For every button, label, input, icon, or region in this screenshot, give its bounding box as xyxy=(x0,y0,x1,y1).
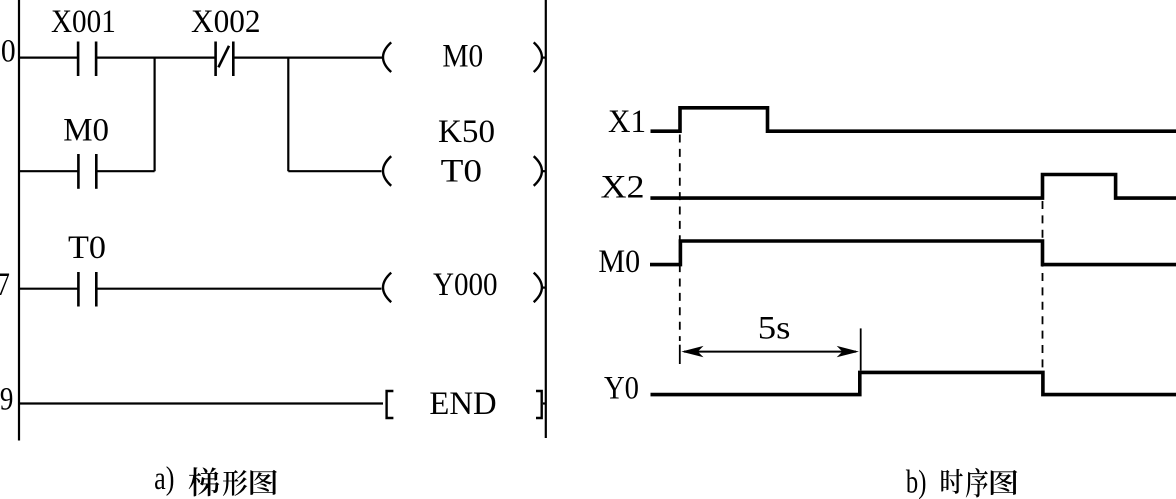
svg-text:T0: T0 xyxy=(441,154,482,190)
svg-text:M0: M0 xyxy=(63,112,109,148)
wire rung2 to node A xyxy=(96,170,154,172)
contact X002 slash xyxy=(218,46,229,68)
coil M0 right paren xyxy=(534,42,542,72)
svg-text:X002: X002 xyxy=(191,4,261,40)
svg-text:Y000: Y000 xyxy=(433,267,498,303)
svg-text:END: END xyxy=(429,386,496,422)
wire rung2 left xyxy=(19,170,78,172)
coil T0 right paren xyxy=(534,156,542,186)
caption glyph ti (ladder) xyxy=(189,467,220,496)
svg-text:5s: 5s xyxy=(758,311,791,347)
END right bracket xyxy=(536,391,542,418)
caption glyph tu (a) xyxy=(250,470,277,495)
caption glyph tu (b) xyxy=(991,470,1018,495)
svg-text:0: 0 xyxy=(1,34,16,70)
caption glyph xu xyxy=(966,468,988,498)
wire END to right rail xyxy=(543,402,546,404)
node A junction vertical wire xyxy=(154,58,156,172)
contact M0 bars xyxy=(77,154,80,189)
dimension arrow head left xyxy=(681,346,703,357)
contact X002 (NC) bars xyxy=(214,42,217,77)
svg-text:M0: M0 xyxy=(442,39,483,75)
dashed guide line t1 xyxy=(679,135,681,342)
waveform X1 xyxy=(651,108,1176,131)
wire T0 coil branch xyxy=(288,170,381,172)
dimension left tick xyxy=(679,345,681,364)
wire rung1 right xyxy=(233,56,382,58)
coil M0 left paren xyxy=(383,42,391,72)
caption glyph shi (timing) xyxy=(941,469,963,494)
left power rail xyxy=(18,0,20,441)
svg-text:X2: X2 xyxy=(601,170,645,206)
contact T0 bars xyxy=(77,272,80,307)
contact X001 bars xyxy=(77,42,80,77)
svg-text:a): a) xyxy=(154,461,174,497)
wire rung1 middle xyxy=(96,56,215,58)
waveform M0 xyxy=(650,241,1176,265)
caption glyph xing xyxy=(223,470,247,496)
svg-text:M0: M0 xyxy=(598,244,640,280)
coil T0 left paren xyxy=(383,156,391,186)
coil Y000 right paren xyxy=(534,273,542,303)
dimension right tick xyxy=(860,328,862,370)
dimension arrow head right xyxy=(837,346,859,357)
waveform X2 xyxy=(650,175,1176,199)
node B junction vertical wire xyxy=(287,58,289,172)
svg-text:Y0: Y0 xyxy=(604,370,639,406)
wire rung3 left xyxy=(19,288,78,290)
waveform Y0 xyxy=(651,372,1176,394)
svg-text:9: 9 xyxy=(0,382,13,418)
right power rail xyxy=(545,0,547,438)
svg-text:T0: T0 xyxy=(68,230,106,266)
wire rung1 left xyxy=(19,56,78,58)
wire coil T0 to right rail xyxy=(541,170,546,172)
wire coil M0 to right rail xyxy=(541,56,546,58)
svg-text:K50: K50 xyxy=(438,114,495,150)
END left bracket xyxy=(387,391,394,418)
wire rung3 right xyxy=(96,288,381,290)
svg-text:7: 7 xyxy=(0,267,10,303)
coil Y000 left paren xyxy=(383,273,391,303)
wire coil Y000 to right rail xyxy=(541,287,546,289)
svg-text:b): b) xyxy=(906,464,927,499)
dimension arrow shaft xyxy=(684,351,856,353)
svg-text:X001: X001 xyxy=(51,4,116,40)
wire rung4 xyxy=(19,402,383,404)
svg-text:X1: X1 xyxy=(608,104,646,140)
dashed guide line t2 xyxy=(1042,201,1044,369)
